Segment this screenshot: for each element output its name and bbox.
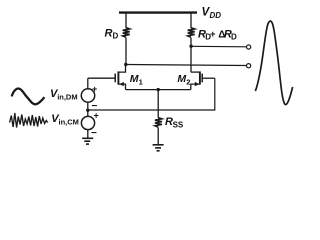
svg-text:+: + xyxy=(94,110,99,120)
svg-text:D: D xyxy=(231,33,237,42)
svg-text:SS: SS xyxy=(173,120,184,129)
svg-text:+: + xyxy=(92,84,97,94)
svg-text:D: D xyxy=(113,32,119,41)
svg-text:M: M xyxy=(177,73,186,85)
svg-text:R: R xyxy=(105,28,113,40)
svg-text:DD: DD xyxy=(210,11,222,20)
svg-text:in,DM: in,DM xyxy=(57,93,77,102)
svg-text:in,CM: in,CM xyxy=(59,118,79,127)
svg-text:1: 1 xyxy=(139,78,143,87)
svg-text:+: + xyxy=(210,29,216,40)
svg-text:2: 2 xyxy=(186,78,190,87)
svg-text:M: M xyxy=(130,73,139,85)
svg-text:−: − xyxy=(91,128,97,139)
